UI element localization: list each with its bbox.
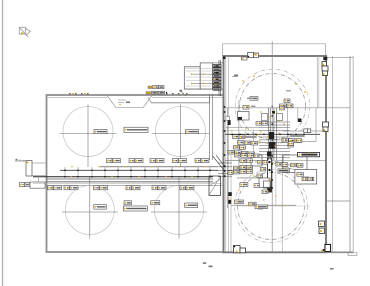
left building outer wall: [47, 95, 224, 252]
outside duct top line: [15, 160, 26, 162]
pipe run 4: [47, 178, 214, 180]
valve label c35: [282, 138, 288, 142]
manifold blob 3: [267, 152, 272, 157]
cluster hline 205: [231, 204, 296, 206]
top wall label row: [146, 91, 167, 94]
pipe label below 6: [180, 186, 194, 190]
upper pipe line: [151, 102, 209, 104]
valve label c1: [233, 135, 239, 139]
plot boundary left stub: [222, 44, 224, 56]
cluster vline 227: [227, 108, 229, 208]
left top wall inner line L: [47, 96, 108, 98]
left page edge line: [2, 0, 4, 286]
tank T1 crosshair: [60, 105, 117, 168]
valve label c49: [297, 173, 304, 177]
valve label c4: [235, 151, 242, 155]
top circle arc specks: [242, 75, 306, 99]
pipe label below 3: [94, 186, 108, 190]
valve label c19: [240, 165, 246, 169]
pipe chute diagonal b: [216, 155, 225, 167]
upper small label row: [148, 86, 164, 89]
tank T4 crosshair: [151, 177, 207, 239]
valve label c39: [297, 139, 302, 143]
upper pipe drop a: [209, 94, 211, 160]
clarifier bottom circle inner: [238, 173, 305, 240]
plot boundary right stub: [324, 44, 326, 56]
cluster dense column: [213, 65, 221, 91]
top circle inner label 2: [284, 99, 290, 102]
valve label c36: [289, 139, 295, 143]
text GO-TOMRA: [241, 136, 256, 138]
cluster yellow arrows: [228, 111, 310, 206]
basin bottom line: [283, 140, 316, 142]
pipe run 1: [100, 166, 218, 168]
manifold black square top: [272, 111, 275, 114]
pipe label above 2: [129, 159, 143, 163]
right tie lower: [326, 200, 350, 202]
cluster tie to wall: [180, 90, 187, 96]
top circle centre mark: [271, 106, 273, 108]
centre vertical line: [271, 44, 273, 253]
pipe trench line: [47, 185, 224, 187]
cluster arrow right: [232, 75, 238, 77]
tank T2 crosshair: [152, 105, 209, 168]
valve label c44: [282, 163, 288, 167]
valve label c7: [237, 141, 244, 145]
right wall box 4: [319, 221, 325, 234]
white rect lower left: [259, 178, 270, 187]
cluster hline 131: [283, 130, 326, 132]
tank T2 circle: [156, 107, 206, 157]
bottom right corner black box: [325, 245, 357, 256]
pipe label above 5: [195, 159, 209, 163]
plot boundary centre tick: [271, 42, 273, 44]
text row mid: [290, 135, 305, 137]
pipe yellow specks: [70, 166, 205, 177]
wall black blob b: [228, 192, 232, 196]
annotation an 2: [209, 266, 213, 268]
manifold flank rect R: [277, 114, 283, 121]
valve label c37: [295, 139, 301, 143]
right wall box 2: [322, 66, 328, 76]
right building inner right line: [332, 56, 334, 252]
shared wall dots: [224, 106, 226, 177]
annotation an 3: [330, 268, 334, 270]
upper pipe drop b: [212, 94, 214, 160]
top circle inner label 1: [250, 97, 258, 101]
tank T3 label: [94, 205, 107, 210]
outside label pair: [20, 183, 30, 187]
valve label c34: [262, 122, 268, 126]
valve label c14: [248, 154, 254, 158]
rect mid upper: [238, 112, 250, 121]
valve label c5: [242, 151, 249, 155]
pipe run 2: [60, 169, 218, 171]
top wall tick marks: [69, 93, 188, 95]
valve label c9: [251, 141, 258, 145]
main cross pipe: [225, 133, 320, 135]
diag pipes to equip: [271, 160, 295, 167]
valve label c30: [243, 106, 249, 110]
wall verticals upper right: [316, 56, 318, 108]
pipe label below 1: [48, 186, 62, 190]
left top wall inner line R: [152, 96, 224, 98]
valve label c38: [288, 143, 294, 147]
valve label c25: [240, 183, 248, 187]
valve label c13: [241, 154, 247, 158]
duct drop line: [38, 176, 40, 182]
label pair lower rect: [302, 177, 312, 180]
right building outer wall: [224, 56, 327, 252]
valve label c32: [287, 104, 293, 108]
valve label c16: [240, 159, 246, 163]
tank T2 label: [186, 130, 199, 134]
double box right mid: [304, 129, 311, 133]
pipe run 5: [47, 181, 214, 183]
equip rect right upper: [283, 155, 307, 173]
valve label c31: [280, 104, 287, 108]
tank T3 circle: [65, 186, 114, 235]
valve label c51: [309, 177, 314, 181]
valve label c40: [288, 142, 293, 146]
tie line left label: [248, 106, 255, 108]
valve label c50: [304, 177, 309, 181]
manifold flank rect L: [262, 114, 268, 121]
valve label c53: [255, 205, 268, 209]
centre column dots: [271, 115, 273, 189]
wall black blob a: [228, 120, 231, 125]
valve label c28: [249, 202, 257, 206]
outside duct tie lower: [32, 175, 47, 177]
valve label c11: [240, 146, 246, 150]
pipe trench line 2: [33, 183, 224, 185]
valve label c3: [228, 150, 235, 154]
equip rect right lower: [295, 170, 317, 185]
cluster cross lines: [186, 69, 219, 87]
valve label c8: [244, 141, 251, 145]
top wall notch: [107, 96, 152, 108]
valve label c24: [228, 171, 233, 175]
valve label c47: [297, 164, 303, 168]
valve label c42: [263, 161, 268, 165]
pipe label above 4: [173, 159, 187, 163]
valve label c41: [258, 160, 263, 164]
wall crossing stubs: [218, 163, 232, 177]
valve label c46: [291, 163, 297, 167]
clarifier bottom circle outer: [235, 170, 308, 243]
cluster vline 231: [230, 150, 232, 252]
tank T1 circle: [63, 107, 113, 157]
cluster hline ext 130: [226, 130, 259, 132]
cluster hline 160b: [276, 160, 326, 162]
manifold verticals: [269, 108, 277, 160]
outside duct rect: [26, 161, 32, 177]
clarifier bottom crosshair: [237, 205, 310, 207]
cluster verticals: [218, 60, 220, 96]
tank T4 circle: [155, 186, 204, 235]
tank T1 label: [94, 130, 107, 134]
valve label c27: [235, 200, 244, 204]
valve label c18: [233, 166, 239, 170]
valve label c17: [246, 159, 252, 163]
cross pipe dots: [231, 133, 305, 135]
right wall bottom door: [321, 245, 330, 252]
manifold ladder lines: [259, 122, 290, 158]
annotation an 1: [203, 262, 207, 264]
tank T3 crosshair: [62, 177, 118, 239]
right wall box 3: [323, 122, 329, 132]
cluster top line: [213, 62, 224, 64]
pipe label above 3: [150, 159, 164, 163]
bottom wall extension: [326, 251, 353, 253]
valve label c43: [276, 162, 282, 166]
pipe chute diagonal a: [213, 156, 224, 170]
broken-image placeholder icon: [19, 27, 30, 37]
black square basin: [298, 119, 302, 123]
tank T4 label: [185, 203, 198, 208]
outside long rect: [30, 182, 45, 188]
corner black square: [223, 56, 226, 59]
clarifier top circle inner: [240, 74, 306, 140]
valve label c15: [254, 154, 259, 158]
clarifier top circle outer: [235, 69, 310, 144]
pipe label below 5: [152, 186, 166, 190]
valve label c12: [235, 153, 241, 157]
pipe label below 2: [64, 186, 78, 190]
manifold blob 2: [269, 142, 276, 149]
interior trough line: [148, 97, 210, 103]
notch interior marks: [118, 100, 130, 105]
pipe label below 4: [126, 186, 140, 190]
centre equipment label bottom: [123, 206, 147, 211]
pipe risers and valve dots: [64, 167, 211, 178]
outside yellow dot: [27, 162, 29, 164]
text WLR: [278, 169, 290, 172]
bottom wall door boxes: [234, 246, 246, 253]
equip rect small: [264, 181, 271, 188]
valve label c23: [247, 170, 253, 174]
cluster vline 253: [253, 130, 255, 155]
valve label c21: [233, 170, 239, 174]
cluster bottom line: [184, 88, 223, 90]
wall black blob c: [228, 200, 231, 204]
BL terminal marks: [16, 159, 26, 161]
valve label c45: [260, 167, 266, 171]
pit box with diagonals: [209, 176, 221, 195]
cluster hline 160: [225, 160, 266, 162]
framed label AL-WLR-TR: [298, 152, 320, 156]
outside duct tie upper: [32, 162, 47, 164]
manifold blob 1: [269, 132, 274, 139]
long tie line y108: [226, 107, 350, 109]
cluster feed line lower: [191, 82, 212, 84]
plot boundary top: [223, 43, 326, 45]
valve label c48: [257, 174, 263, 178]
bottom small label pair: [151, 201, 160, 205]
lower column light verticals: [275, 160, 277, 205]
valve label c22: [240, 170, 246, 174]
top wall door boxes: [248, 53, 259, 58]
right tie top: [326, 57, 353, 59]
centre equipment label top: [124, 127, 148, 132]
valve label c54: [280, 106, 285, 110]
below wall box: [242, 57, 248, 60]
pipe run 3: [33, 176, 213, 178]
cluster box A: [184, 67, 200, 89]
shared wall inner verticals: [225, 56, 227, 252]
cluster vline 238: [238, 100, 240, 168]
lower column bar: [268, 158, 272, 192]
right outer double line a: [349, 56, 351, 252]
valve label c6: [248, 152, 255, 156]
valve label c33: [256, 122, 262, 126]
valve label c29: [258, 205, 263, 209]
equip rect mid: [251, 155, 262, 166]
cluster hline ext 127: [226, 127, 259, 129]
right outer double line b: [352, 56, 354, 252]
pipe label above 1: [107, 159, 121, 163]
valve label c10: [234, 145, 240, 149]
valve label c2: [239, 135, 245, 139]
small white box on wall: [226, 116, 230, 120]
basin verticals: [287, 108, 316, 141]
valve label c26: [254, 184, 260, 188]
cluster feed line upper: [191, 73, 212, 75]
valve label c52: [262, 190, 268, 194]
right wall box 1: [322, 57, 327, 66]
cluster box B: [200, 63, 212, 89]
centre small label bottom: [124, 201, 132, 205]
valve label c20: [247, 165, 253, 169]
cluster hline 178: [237, 177, 262, 179]
